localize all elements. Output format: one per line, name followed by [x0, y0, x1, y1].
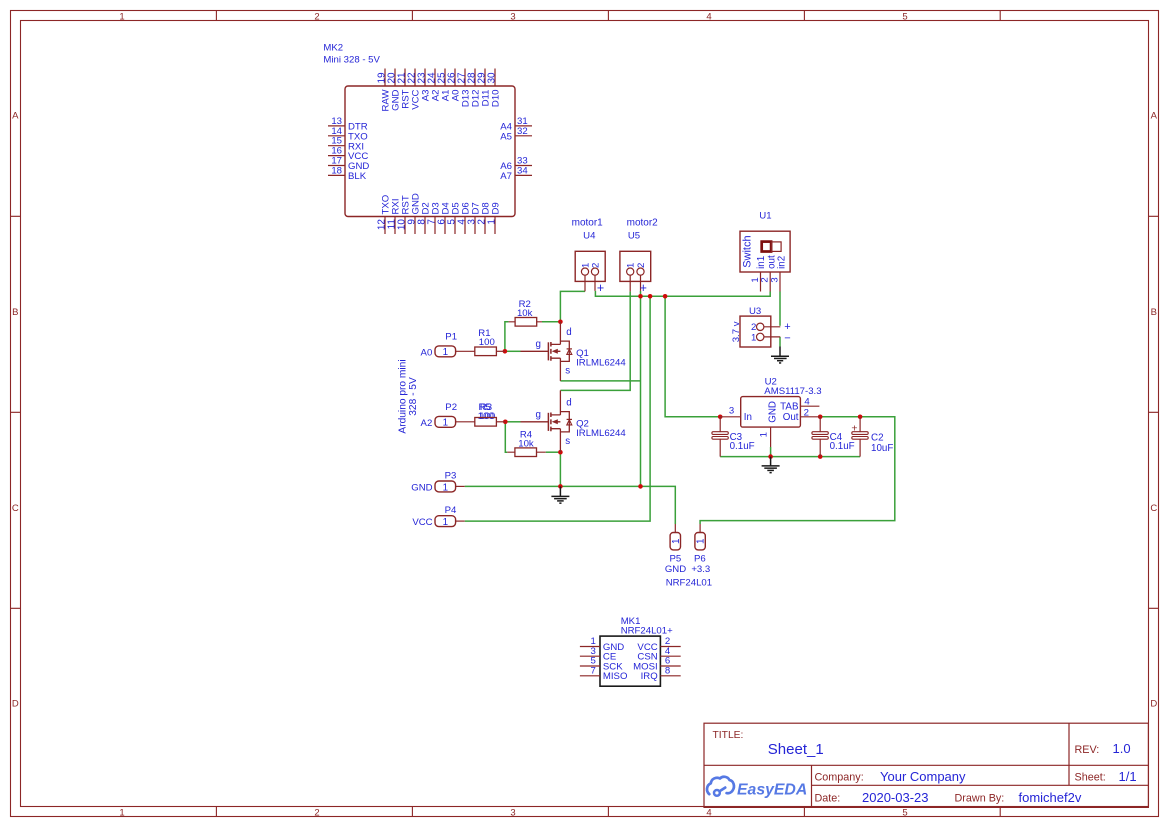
junction U2 In / C3	[718, 415, 723, 420]
wire R2 right to Q1 drain	[542, 321, 560, 323]
svg-text:IRLML6244: IRLML6244	[576, 428, 626, 439]
Q2 drain/body/source stubs	[551, 415, 561, 429]
svg-text:A7: A7	[500, 171, 512, 182]
svg-text:C: C	[1150, 503, 1157, 514]
connector P5	[665, 524, 686, 575]
ground at gnd net	[551, 486, 569, 503]
svg-text:D: D	[12, 699, 19, 710]
Q2 source pin	[559, 429, 561, 453]
svg-text:P4: P4	[445, 505, 457, 516]
svg-text:C: C	[12, 503, 19, 514]
svg-text:In: In	[744, 412, 752, 423]
svg-text:+: +	[851, 423, 857, 435]
svg-text:P2: P2	[445, 402, 457, 413]
svg-text:1: 1	[119, 807, 124, 818]
svg-text:MK2: MK2	[323, 43, 343, 54]
wire U2 Out to P6	[700, 417, 895, 524]
junction dots	[503, 294, 863, 489]
svg-text:AMS1117-3.3: AMS1117-3.3	[764, 386, 821, 397]
resistor R4	[507, 429, 545, 456]
junction R4/Q2 source	[558, 450, 563, 455]
junction gnd rail / C4	[818, 454, 823, 459]
transistor Q1 IRLML6244	[521, 322, 573, 381]
svg-text:10uF: 10uF	[871, 443, 893, 454]
connector U4 motor1	[572, 217, 606, 295]
svg-text:3.7 v: 3.7 v	[731, 321, 742, 342]
svg-text:100: 100	[479, 411, 495, 422]
MK1 left pin names	[603, 642, 628, 682]
MK2 top pin names	[381, 89, 502, 112]
svg-text:motor1: motor1	[572, 217, 604, 228]
svg-text:GND: GND	[768, 401, 779, 423]
wire VCC: +net to P4	[465, 296, 650, 521]
battery pin leads	[764, 327, 780, 337]
ground under battery	[771, 347, 789, 363]
resistor R1	[475, 328, 505, 356]
svg-text:IRLML6244: IRLML6244	[576, 357, 626, 368]
svg-text:d: d	[566, 398, 571, 409]
svg-text:motor2: motor2	[627, 217, 659, 228]
MK1 right pin stubs	[660, 647, 680, 676]
svg-text:1.0: 1.0	[1113, 741, 1131, 756]
junction Out / C2	[858, 415, 863, 420]
svg-text:1: 1	[626, 263, 637, 268]
Q1 gate bar	[547, 342, 549, 360]
Q1 drain pin	[559, 322, 561, 345]
EasyEDA logo cloud	[707, 777, 734, 794]
Q1 gate pin	[521, 350, 549, 352]
junction +net U2 feed drop	[663, 294, 668, 299]
svg-text:NRF24L01: NRF24L01	[666, 578, 712, 589]
wire gate junction up to R2 left	[505, 322, 509, 352]
switch knob square	[762, 242, 771, 252]
MK2 right pin stubs	[515, 126, 532, 175]
P3 pin lead	[456, 485, 465, 487]
wire to Q1 gate	[505, 350, 521, 352]
svg-text:Switch: Switch	[742, 235, 754, 267]
battery U3	[731, 306, 791, 347]
wire +batt net: motor1 pin2 to switch out	[595, 291, 770, 296]
svg-text:5: 5	[902, 807, 907, 818]
svg-text:REV:: REV:	[1075, 744, 1100, 756]
svg-text:Out: Out	[783, 412, 799, 423]
transistor Q2 IRLML6244	[521, 390, 573, 452]
connector U5 motor2	[620, 217, 658, 295]
resistor R2	[509, 299, 542, 326]
svg-text:Mini 328 - 5V: Mini 328 - 5V	[323, 54, 380, 65]
wire motor2 pin1 to Q2 drain	[560, 291, 630, 390]
wire battery minus to ground	[779, 337, 781, 347]
svg-text:2: 2	[591, 263, 602, 268]
svg-text:4: 4	[706, 11, 711, 22]
MK2 left pin names	[348, 122, 369, 183]
MK2 left pin numbers	[331, 116, 342, 176]
Q2 gate pin	[521, 421, 549, 423]
connector P2	[421, 402, 475, 429]
svg-text:1: 1	[443, 517, 448, 528]
WIRES	[465, 291, 895, 524]
svg-text:4: 4	[706, 807, 711, 818]
svg-text:TITLE:: TITLE:	[713, 730, 744, 741]
Q1 body diode branch	[560, 341, 569, 361]
MK1 right pin numbers	[665, 636, 671, 676]
svg-text:34: 34	[517, 165, 528, 176]
P4 pin lead	[456, 520, 465, 522]
wire R4 right lead to Q2 source	[546, 451, 561, 453]
svg-text:2020-03-23: 2020-03-23	[862, 790, 929, 805]
svg-text:TAB: TAB	[780, 401, 799, 412]
svg-text:A0: A0	[421, 347, 433, 358]
MK2 top pin numbers 19-30	[377, 72, 498, 84]
ground under U2	[762, 457, 780, 473]
svg-text:U1: U1	[759, 211, 771, 222]
wire motor2 pin2 down to gnd net	[640, 291, 642, 487]
svg-text:IRQ: IRQ	[641, 671, 658, 682]
wire switch in2 to battery +	[779, 292, 781, 326]
MK2 bottom pin numbers 12-1	[377, 219, 498, 231]
svg-text:2: 2	[636, 263, 647, 268]
connector P4	[412, 505, 464, 528]
title block grid	[704, 723, 1148, 807]
Q2 body diode branch	[560, 412, 569, 432]
IC MK2 Mini 328 - 5V	[323, 43, 532, 235]
svg-text:7: 7	[590, 666, 595, 677]
junction Out / C4	[818, 415, 823, 420]
svg-text:BLK: BLK	[348, 171, 367, 182]
svg-text:32: 32	[517, 126, 528, 137]
svg-text:Your Company: Your Company	[880, 769, 966, 784]
svg-text:NRF24L01+: NRF24L01+	[621, 626, 673, 637]
wire capacitor bottom rail	[720, 456, 860, 458]
wire +net to U2 In	[665, 296, 720, 417]
resistor R5 (R3 stacked)	[475, 402, 506, 426]
MK1 right pin names	[633, 642, 658, 682]
EasyEDA logo cloud dot	[714, 790, 720, 796]
junction R5/R4/Q2 gate	[503, 420, 508, 425]
junction gnd net motor2/Q1 drop	[638, 484, 643, 489]
svg-text:Arduino pro mini: Arduino pro mini	[398, 359, 409, 433]
junction gnd rail / U2 pin1	[768, 454, 773, 459]
svg-text:1: 1	[443, 347, 448, 358]
svg-text:GND: GND	[665, 564, 686, 575]
svg-text:1: 1	[696, 538, 707, 543]
svg-text:MISO: MISO	[603, 671, 628, 682]
svg-text:D9: D9	[491, 202, 502, 214]
svg-text:in2: in2	[776, 256, 787, 269]
svg-text:Sheet:: Sheet:	[1075, 772, 1106, 784]
svg-text:P1: P1	[445, 332, 457, 343]
svg-text:1: 1	[443, 482, 448, 493]
connector P6	[691, 524, 710, 575]
svg-text:3: 3	[510, 11, 515, 22]
Q2 body arrow	[552, 419, 558, 424]
svg-text:−: −	[784, 333, 790, 345]
svg-text:d: d	[566, 327, 571, 338]
svg-text:g: g	[536, 339, 541, 350]
frame row labels left	[12, 110, 19, 709]
svg-text:18: 18	[331, 165, 342, 176]
svg-text:A: A	[1151, 110, 1158, 121]
svg-text:+: +	[597, 281, 604, 295]
svg-text:EasyEDA: EasyEDA	[737, 781, 807, 798]
svg-text:+: +	[640, 281, 647, 295]
MK2 top pin stubs	[385, 69, 495, 87]
svg-text:5: 5	[902, 11, 907, 22]
svg-text:Date:: Date:	[815, 793, 841, 805]
wire gate junction down to R4 left	[505, 422, 507, 452]
svg-text:B: B	[1151, 307, 1157, 318]
svg-text:s: s	[565, 436, 570, 447]
svg-text:100: 100	[479, 337, 495, 348]
frame row labels right	[1150, 110, 1157, 709]
svg-text:U5: U5	[628, 231, 640, 242]
capacitor C4	[812, 417, 855, 457]
svg-text:P3: P3	[445, 471, 457, 482]
svg-text:0.1uF: 0.1uF	[830, 441, 855, 452]
svg-text:D: D	[1150, 699, 1157, 710]
capacitor C3	[712, 417, 755, 457]
frame column labels top	[119, 11, 907, 22]
junction R2/Q1 drain	[558, 320, 563, 325]
capacitor C2 (polarized)	[851, 417, 893, 457]
regulator U2 AMS1117-3.3	[720, 377, 821, 447]
svg-text:1: 1	[759, 432, 770, 437]
svg-text:1: 1	[487, 219, 498, 225]
svg-text:1: 1	[443, 418, 448, 429]
svg-text:4: 4	[804, 397, 810, 408]
svg-text:1: 1	[119, 11, 124, 22]
wire GND net: P3 to P5	[465, 486, 676, 524]
svg-text:3: 3	[510, 807, 515, 818]
MK1 left pin stubs	[580, 647, 600, 676]
MK2 right pin numbers	[517, 116, 528, 176]
wire motor1 pin1 to Q1 drain	[560, 291, 585, 321]
svg-text:+: +	[784, 321, 790, 333]
svg-text:30: 30	[487, 72, 498, 84]
wire U2 pin1 to gnd rail	[770, 447, 772, 457]
svg-text:Sheet_1: Sheet_1	[768, 741, 824, 758]
svg-text:g: g	[536, 409, 541, 420]
svg-text:8: 8	[665, 666, 670, 677]
Q2 drain pin	[559, 390, 561, 415]
wire Q1 source to gnd drop	[560, 380, 640, 382]
svg-text:fomichef2v: fomichef2v	[1019, 790, 1082, 805]
svg-text:1: 1	[751, 332, 756, 343]
svg-text:0.1uF: 0.1uF	[730, 441, 755, 452]
Q1 channel segments	[550, 342, 552, 361]
Q1 source pin	[559, 358, 561, 381]
svg-text:A: A	[12, 110, 19, 121]
U2 pin 4 TAB stub	[800, 405, 819, 407]
junction +net motor2 pin2	[638, 294, 643, 299]
svg-text:VCC: VCC	[412, 517, 432, 528]
svg-text:+3.3: +3.3	[691, 564, 710, 575]
svg-text:1/1: 1/1	[1119, 769, 1137, 784]
wire Q2 source to gnd net	[559, 452, 561, 486]
svg-text:Drawn By:: Drawn By:	[955, 793, 1005, 805]
motor2 pin leads	[630, 275, 640, 291]
junction +net VCC drop	[648, 294, 653, 299]
Q1 drain/body/source stubs	[551, 344, 561, 358]
P1 to R1 lead	[456, 350, 475, 352]
frame column labels bottom	[119, 807, 907, 818]
svg-text:2: 2	[804, 407, 809, 418]
wire to Q2 gate	[505, 421, 520, 423]
connector P1	[421, 332, 475, 359]
svg-text:2: 2	[314, 11, 319, 22]
junction gnd net Q2 source	[558, 484, 563, 489]
svg-text:A2: A2	[421, 418, 433, 429]
svg-text:3: 3	[729, 405, 734, 416]
P2 to R5 lead	[456, 421, 475, 423]
switch U1	[740, 211, 790, 292]
MK2 left pin stubs	[328, 126, 345, 175]
MK2 right pin names	[500, 122, 512, 183]
switch pin stubs	[761, 272, 781, 292]
svg-text:2: 2	[314, 807, 319, 818]
MK2 bottom pin names	[381, 193, 502, 214]
Q1 body arrow	[552, 349, 558, 354]
svg-text:328 - 5V: 328 - 5V	[408, 377, 419, 416]
svg-text:GND: GND	[411, 482, 432, 493]
Q2 gate bar	[547, 413, 549, 431]
switch body square	[771, 242, 781, 252]
svg-text:3: 3	[769, 277, 780, 282]
svg-text:A5: A5	[500, 131, 512, 142]
Q2 channel segments	[550, 413, 552, 432]
svg-text:s: s	[565, 366, 570, 377]
connector P3	[411, 471, 464, 494]
MK1 left pin numbers	[590, 636, 595, 676]
svg-text:B: B	[12, 307, 18, 318]
U2 pin 2 Out stub	[800, 416, 820, 418]
svg-text:Company:: Company:	[815, 771, 864, 783]
svg-text:1: 1	[671, 538, 682, 543]
IC MK1 NRF24L01+	[580, 616, 681, 686]
junction R1/R2/Q1 gate	[503, 349, 508, 354]
svg-text:U4: U4	[583, 231, 596, 242]
motor1 pin leads	[585, 275, 595, 291]
U2 pin 1 GND stub	[770, 427, 772, 447]
MK2 bottom pin stubs	[385, 217, 495, 235]
svg-text:D10: D10	[491, 90, 502, 108]
U2 pin 3 In stub	[720, 416, 741, 418]
